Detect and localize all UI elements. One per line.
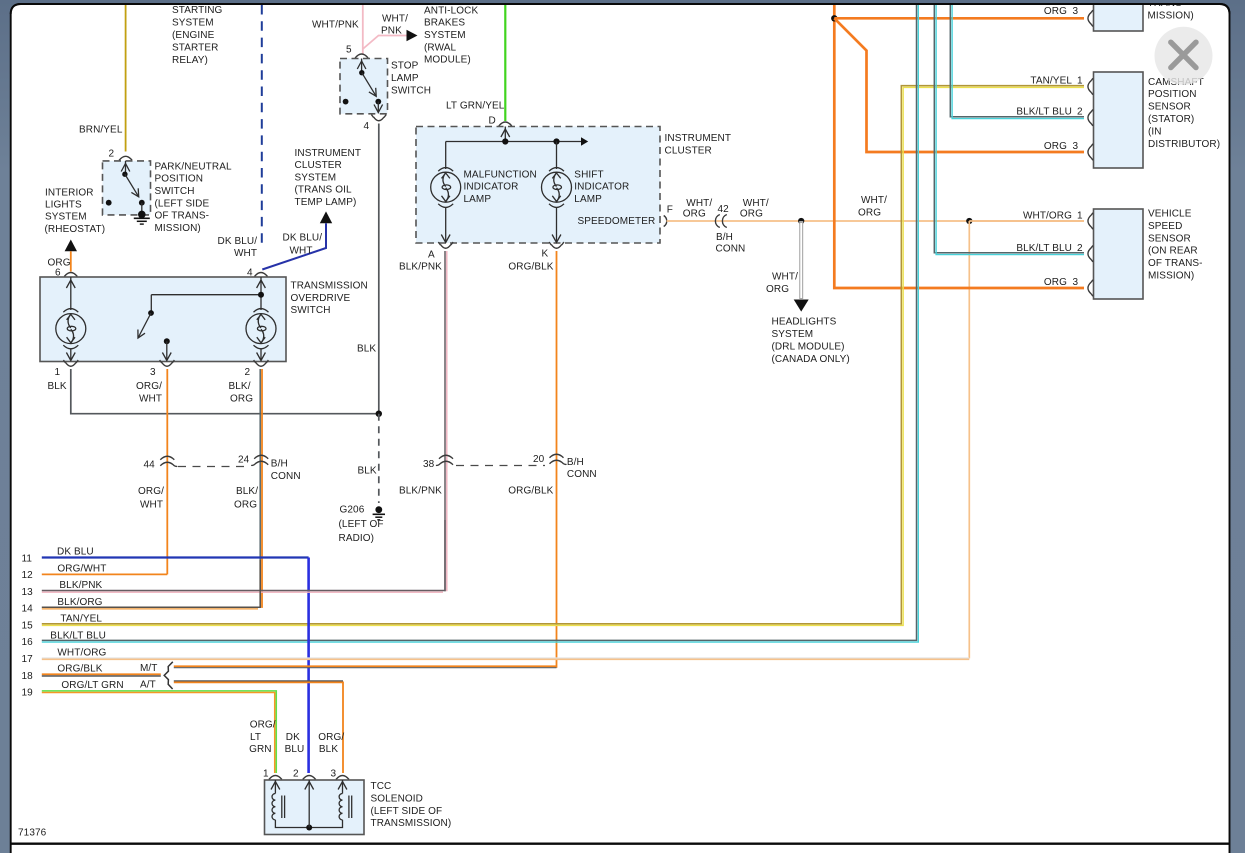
svg-text:STARTER: STARTER [172,43,218,54]
svg-text:3: 3 [331,768,337,779]
arrow to instrument cluster system [320,211,332,223]
tcc internal bottom wire [275,820,342,828]
svg-text:BRN/YEL: BRN/YEL [79,125,123,136]
shift exit arrow [556,208,558,242]
svg-text:(LEFT SIDE: (LEFT SIDE [155,198,210,209]
svg-text:SHIFT: SHIFT [574,169,603,180]
svg-text:42: 42 [718,204,730,215]
cluster bus wire [446,141,582,143]
svg-text:BLK: BLK [357,344,376,355]
svg-text:SYSTEM: SYSTEM [295,172,337,183]
svg-text:INDICATOR: INDICATOR [464,182,519,193]
lamp right stem [260,277,262,310]
svg-text:BLK: BLK [319,744,338,755]
junction dot WHT/ORG 2 [966,218,972,224]
svg-text:20: 20 [533,454,545,465]
svg-text:CONN: CONN [567,469,597,480]
svg-text:(RHEOSTAT): (RHEOSTAT) [45,224,106,235]
switch contact left [343,99,349,105]
svg-text:BLK: BLK [358,465,377,476]
svg-text:SYSTEM: SYSTEM [45,212,87,223]
svg-text:WHT/: WHT/ [861,195,887,206]
svg-text:VEHICLE: VEHICLE [1148,209,1192,220]
switch blade [125,174,139,197]
svg-text:15: 15 [22,620,34,631]
wire WHT/ORG down to row17 [968,221,970,658]
lamp left socket arcs [63,309,78,313]
svg-text:PNK: PNK [381,26,402,37]
svg-text:RADIO): RADIO) [339,533,375,544]
lamp left exit arrow [70,349,72,359]
pin arc ORG 3 (vss) [1088,280,1093,296]
switch pivot [359,70,364,75]
switch pivot [122,172,127,177]
wire to ground [141,203,143,215]
op lamp MIL (malfunction indicator lamp) [431,172,461,202]
switch pivot [148,310,154,316]
svg-text:2: 2 [293,768,299,779]
svg-text:SWITCH: SWITCH [291,305,331,316]
wire ORG to top box [834,17,1084,20]
svg-text:DK BLU/: DK BLU/ [283,232,323,243]
pin arc WHT/ORG 1 [1088,213,1093,229]
ground node dot [138,211,146,219]
wire 12 ORG/WHT [42,573,168,575]
svg-text:3: 3 [150,367,156,378]
svg-text:ANTI-LOCK: ANTI-LOCK [424,5,478,16]
svg-text:BLK/: BLK/ [236,486,258,497]
wire BRN/YEL vertical [125,5,127,152]
svg-text:1: 1 [263,768,269,779]
MIL socket arcs [438,168,453,172]
svg-text:(TRANS OIL: (TRANS OIL [295,185,352,196]
junction BLK [376,411,382,417]
svg-text:OVERDRIVE: OVERDRIVE [291,293,351,304]
svg-text:A/T: A/T [140,680,156,691]
MIL bottom socket [438,204,453,208]
switch arrow up [121,164,130,172]
svg-text:CONN: CONN [271,471,301,482]
tcc pin1 arrow [274,780,276,794]
svg-text:LT: LT [250,732,261,743]
terminal arc D [499,122,512,126]
wire 18 ORG/BLK [42,673,161,675]
wire BLK/PNK vertical [444,251,446,591]
svg-text:BLK/: BLK/ [229,381,251,392]
arrow to headlights [794,300,809,312]
svg-text:2: 2 [1077,243,1083,254]
wire WHT/ORG pin1 stub [969,220,1084,222]
wire WHT/PNK branch to RWAL [363,36,407,50]
svg-text:TEMP LAMP): TEMP LAMP) [295,197,357,208]
svg-text:SENSOR: SENSOR [1148,233,1191,244]
transmission box (cut off) [1094,0,1144,31]
ground G206 [375,506,382,513]
pin arc ORG 3 [1088,10,1093,26]
svg-text:BLU: BLU [285,744,305,755]
wire BLK/LT BLU vss to top [934,5,1084,253]
svg-text:MISSION): MISSION) [1148,271,1194,282]
svg-text:INSTRUMENT: INSTRUMENT [665,133,732,144]
svg-text:38: 38 [423,459,435,470]
svg-text:MISSION): MISSION) [155,223,201,234]
lamp left bottom socket [63,345,78,349]
dashed BLK to ground [378,414,380,503]
svg-text:12: 12 [22,570,34,581]
svg-text:ORG: ORG [234,500,257,511]
svg-text:(RWAL: (RWAL [424,42,457,53]
svg-text:ORG: ORG [740,209,763,220]
lamp left stem [70,277,72,310]
svg-text:2: 2 [245,367,251,378]
svg-text:(STATOR): (STATOR) [1148,114,1194,125]
svg-text:BLK/ORG: BLK/ORG [57,597,102,608]
MIL exit arrow [445,208,447,242]
svg-text:WHT/: WHT/ [382,14,408,25]
svg-text:3: 3 [1073,277,1079,288]
wire WHT/PNK vertical [362,5,364,54]
svg-text:WHT: WHT [234,248,257,259]
connector 44 [160,456,177,466]
junction dot D [502,138,508,144]
bottom frame line [10,843,1230,845]
svg-text:1: 1 [1077,210,1083,221]
svg-text:WHT/: WHT/ [743,198,769,209]
svg-text:B/H: B/H [716,232,733,243]
svg-text:SOLENOID: SOLENOID [371,794,423,805]
svg-text:SWITCH: SWITCH [391,85,431,96]
svg-text:ORG/: ORG/ [250,720,276,731]
terminal arc 5 [355,54,368,58]
svg-text:SYSTEM: SYSTEM [172,18,214,29]
arrow to interior lights [65,240,77,252]
svg-text:INTERIOR: INTERIOR [45,187,94,198]
switch contact left [106,200,112,206]
wire A/T branch ORG/BLK [174,680,343,682]
lamp right bottom socket [254,345,269,349]
switch contact right [139,200,145,206]
svg-text:LAMP: LAMP [464,194,492,205]
instrument cluster box [416,127,660,244]
lamp right exit arrow [260,349,262,359]
svg-text:SENSOR: SENSOR [1148,102,1191,113]
svg-text:BLK/LT BLU: BLK/LT BLU [1016,107,1072,118]
terminal cup 1 [63,360,78,366]
svg-text:ORG: ORG [683,209,706,220]
terminal cup K [549,242,564,248]
svg-text:1: 1 [1077,75,1083,86]
svg-text:SYSTEM: SYSTEM [772,329,814,340]
shift lamp stem [556,142,558,170]
wire BLK from stop lamp switch [378,124,380,414]
junction dot tcc [306,825,312,831]
terminal arc 6 [64,273,77,277]
overdrive switch box [40,277,286,362]
svg-text:2: 2 [109,149,115,160]
switch exit arrow down [377,102,379,111]
svg-text:PARK/NEUTRAL: PARK/NEUTRAL [155,161,232,172]
svg-text:17: 17 [22,654,34,665]
connector 20 [550,454,567,464]
svg-text:ORG/: ORG/ [318,732,344,743]
switch bar horizontal [151,294,261,296]
svg-text:ORG: ORG [1044,141,1067,152]
svg-text:WHT: WHT [139,393,162,404]
MIL lamp stem [445,142,447,170]
svg-text:BLK: BLK [48,381,67,392]
svg-text:ORG/BLK: ORG/BLK [57,664,102,675]
tcc pin3 arrow [342,780,344,794]
svg-text:19: 19 [22,688,34,699]
svg-text:ORG/BLK: ORG/BLK [508,485,553,496]
connector 24 [251,455,268,465]
terminal cup 2 [254,360,269,366]
svg-text:LIGHTS: LIGHTS [45,200,82,211]
svg-text:ORG/: ORG/ [136,381,162,392]
dashed wire DK BLU [261,5,263,248]
pin arc ORG 3 (camshaft) [1088,144,1093,160]
svg-text:71376: 71376 [18,828,47,839]
svg-text:RELAY): RELAY) [172,55,208,66]
svg-text:CLUSTER: CLUSTER [665,145,712,156]
terminal arc 2 [119,156,132,160]
svg-text:DK BLU/: DK BLU/ [218,236,258,247]
contact exit arrow [166,341,168,359]
svg-text:3: 3 [1073,6,1079,17]
svg-text:D: D [489,116,496,127]
coil L2 core [348,796,350,819]
wire WHT/ORG from F [667,220,1085,222]
wire TAN/YEL vertical [42,86,1084,624]
svg-text:INDICATOR: INDICATOR [574,182,629,193]
svg-text:G206: G206 [340,505,365,516]
svg-text:5: 5 [346,45,352,56]
cluster entry arrow [504,127,506,142]
svg-text:(CANADA ONLY): (CANADA ONLY) [772,354,850,365]
wire WHT to headlights (white wire) [799,221,803,299]
svg-text:MALFUNCTION: MALFUNCTION [464,169,537,180]
svg-text:A: A [428,249,435,260]
lamp right (overdrive off indicator) [246,314,276,344]
svg-text:(ON REAR: (ON REAR [1148,246,1198,257]
terminal cup 4 [371,115,386,121]
connector 38 [436,455,453,465]
svg-text:18: 18 [22,671,34,682]
svg-text:ORG/LT GRN: ORG/LT GRN [61,680,123,691]
svg-text:WHT/ORG: WHT/ORG [1023,210,1072,221]
svg-text:GRN: GRN [249,744,272,755]
svg-text:(ENGINE: (ENGINE [172,30,215,41]
lamp shift indicator [542,172,572,202]
svg-text:BLK/PNK: BLK/PNK [399,485,442,496]
pin arc TAN/YEL 1 [1088,78,1093,94]
svg-text:TRANSMISSION: TRANSMISSION [291,281,368,292]
wire BLK/ORG vertical [259,369,261,608]
svg-text:STOP: STOP [391,61,419,72]
svg-text:16: 16 [22,637,34,648]
wire 14 BLK/ORG [42,560,260,607]
svg-text:HEADLIGHTS: HEADLIGHTS [772,317,837,328]
svg-text:ORG: ORG [766,284,789,295]
junction dot K [553,138,559,144]
svg-text:SYSTEM: SYSTEM [424,30,466,41]
svg-text:BLK/LT BLU: BLK/LT BLU [50,630,106,641]
wire M/T branch ORG/BLK [174,665,557,667]
pin arc BLK/LT BLU 2 (vss) [1088,246,1093,262]
wire ORG trunk vertical [834,5,1084,288]
coil L1 [272,794,275,820]
svg-text:MISSION): MISSION) [1148,11,1194,22]
svg-text:13: 13 [22,587,34,598]
svg-text:M/T: M/T [140,663,158,674]
svg-text:DK: DK [286,732,300,743]
wire 11 DK BLU [42,556,309,558]
svg-text:TRANSMISSION): TRANSMISSION) [371,818,452,829]
pin arc BLK/LT BLU 2 [1088,110,1093,126]
svg-text:SPEED: SPEED [1148,221,1182,232]
svg-text:BRAKES: BRAKES [424,18,465,29]
svg-text:2: 2 [1077,107,1083,118]
switch blade [362,73,376,97]
svg-text:DK BLU: DK BLU [57,547,94,558]
svg-text:3: 3 [1073,141,1079,152]
svg-text:4: 4 [364,121,370,132]
svg-text:ORG/: ORG/ [138,486,164,497]
coil L2 [339,794,342,820]
svg-text:(LEFT SIDE OF: (LEFT SIDE OF [371,806,443,817]
shift bottom socket [549,204,564,208]
junction dot WHT/ORG [798,218,804,224]
svg-text:BLK/LT BLU: BLK/LT BLU [1016,243,1072,254]
ground symbol [134,217,150,219]
wire ORG stub [70,251,72,271]
svg-text:ORG/BLK: ORG/BLK [508,262,553,273]
svg-text:WHT: WHT [290,246,313,257]
svg-text:B/H: B/H [271,459,288,470]
wire BLK from terminal 1 [71,369,379,414]
terminal cup A [438,242,453,248]
wire 17 WHT/ORG [42,657,970,659]
park/neutral position switch box [103,161,151,215]
svg-text:WHT/PNK: WHT/PNK [312,20,359,31]
terminal arc 4 [255,273,268,277]
svg-text:OF TRANS-: OF TRANS- [1148,258,1203,269]
svg-text:TAN/YEL: TAN/YEL [1030,75,1072,86]
wire BLK/LT BLU camshaft to top [950,5,1084,117]
svg-text:24: 24 [238,454,250,465]
terminal cup 3 [160,360,175,366]
svg-text:WHT/ORG: WHT/ORG [57,647,106,658]
connector 42 arcs [715,215,726,228]
svg-text:LAMP: LAMP [574,194,602,205]
wire DK BLU/WHT [262,223,326,269]
svg-text:11: 11 [22,553,33,564]
brace M/T-A/T [164,662,173,689]
svg-text:LAMP: LAMP [391,73,419,84]
arrow to anti-lock brakes [407,30,418,41]
svg-text:K: K [542,249,549,260]
shift socket arcs [549,168,564,172]
top background strip [0,0,1245,3]
svg-text:POSITION: POSITION [1148,89,1197,100]
svg-text:BLK/PNK: BLK/PNK [399,262,442,273]
switch arrow up [357,61,366,69]
svg-text:POSITION: POSITION [155,174,204,185]
dashed connector link 44-24 [178,466,250,468]
wire LT GRN/YEL [504,5,506,121]
lamp left (overdrive indicator) [56,314,86,344]
wire 19 ORG/LT GRN [42,691,276,773]
svg-text:TAN/YEL: TAN/YEL [60,614,102,625]
svg-text:BLK/PNK: BLK/PNK [59,580,102,591]
switch contact [164,338,170,344]
svg-text:ORG: ORG [1044,6,1067,17]
svg-text:B/H: B/H [567,457,584,468]
svg-text:14: 14 [22,604,34,615]
svg-text:ORG: ORG [1044,277,1067,288]
tcc pin2 wire [308,780,310,828]
terminal arc tcc 3 [336,776,349,780]
svg-text:CONN: CONN [716,244,746,255]
svg-text:TCC: TCC [371,781,392,792]
switch contact right [375,99,381,105]
svg-text:(LEFT OF: (LEFT OF [339,519,384,530]
switch blade [138,313,151,338]
svg-text:STARTING: STARTING [172,5,223,16]
svg-text:WHT/: WHT/ [772,272,798,283]
dashed connector link 38-20 [456,465,545,467]
svg-text:(DRL MODULE): (DRL MODULE) [772,341,845,352]
wire BLK/LT BLU row16 to top [42,5,917,640]
vehicle speed sensor box [1094,209,1144,299]
lamp right socket arcs [254,309,269,313]
svg-text:ORG/WHT: ORG/WHT [57,563,106,574]
wire 13 BLK/PNK [42,520,445,591]
wire ORG branch to camshaft [834,18,1084,152]
close button [1155,27,1213,85]
switch stub down [150,295,152,313]
svg-text:(IN: (IN [1148,126,1162,137]
tcc solenoid box [265,780,365,835]
junction dot on lamp stem [258,292,264,298]
svg-text:44: 44 [144,460,156,471]
svg-text:1: 1 [55,367,61,378]
svg-text:MODULE): MODULE) [424,55,471,66]
svg-text:CLUSTER: CLUSTER [295,160,342,171]
camshaft sensor box [1094,72,1144,168]
svg-text:WHT/: WHT/ [686,198,712,209]
svg-text:WHT: WHT [140,500,163,511]
svg-text:ORG: ORG [230,393,253,404]
wire ORG/WHT vertical [166,369,168,574]
svg-text:OF TRANS-: OF TRANS- [155,211,210,222]
terminal arc tcc 1 [269,776,282,780]
stop lamp switch box [340,59,388,114]
junction dot ORG [831,15,837,21]
svg-text:SPEEDOMETER: SPEEDOMETER [578,216,656,227]
svg-text:ORG: ORG [858,207,881,218]
coil L1 core [281,796,283,819]
svg-text:F: F [667,205,673,216]
svg-text:SWITCH: SWITCH [155,186,195,197]
terminal arc F [664,216,667,227]
svg-text:INSTRUMENT: INSTRUMENT [295,148,362,159]
svg-text:DISTRIBUTOR): DISTRIBUTOR) [1148,139,1220,150]
svg-text:LT GRN/YEL: LT GRN/YEL [446,101,505,112]
terminal arc tcc 2 [303,776,316,780]
wire ORG/BLK vertical [556,251,558,668]
